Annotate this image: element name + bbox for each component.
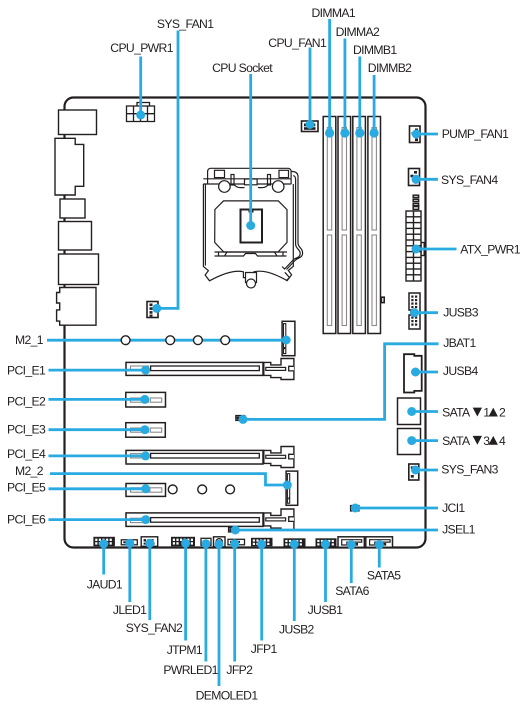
svg-text:SYS_FAN2: SYS_FAN2 bbox=[126, 621, 183, 635]
svg-text:PCI_E1: PCI_E1 bbox=[7, 364, 46, 378]
svg-text:SATA6: SATA6 bbox=[335, 584, 369, 598]
svg-text:1: 1 bbox=[483, 406, 490, 420]
svg-text:JUSB3: JUSB3 bbox=[443, 305, 479, 319]
svg-text:JAUD1: JAUD1 bbox=[87, 577, 123, 591]
svg-text:DIMMA2: DIMMA2 bbox=[336, 25, 380, 39]
svg-text:JUSB2: JUSB2 bbox=[279, 622, 315, 636]
svg-text:JFP2: JFP2 bbox=[226, 663, 253, 677]
svg-text:2: 2 bbox=[499, 406, 506, 420]
svg-text:DEMOLED1: DEMOLED1 bbox=[196, 689, 259, 703]
svg-text:SATA: SATA bbox=[442, 406, 471, 420]
svg-text:PCI_E3: PCI_E3 bbox=[7, 423, 46, 437]
svg-text:JSEL1: JSEL1 bbox=[442, 522, 476, 536]
svg-text:JCI1: JCI1 bbox=[442, 501, 465, 515]
svg-text:SATA: SATA bbox=[442, 434, 471, 448]
svg-text:PUMP_FAN1: PUMP_FAN1 bbox=[442, 127, 509, 141]
svg-text:4: 4 bbox=[499, 434, 506, 448]
svg-text:CPU_PWR1: CPU_PWR1 bbox=[110, 41, 173, 55]
svg-text:M2_2: M2_2 bbox=[15, 464, 44, 478]
svg-text:JLED1: JLED1 bbox=[113, 603, 147, 617]
svg-text:3: 3 bbox=[483, 434, 490, 448]
svg-text:CPU_FAN1: CPU_FAN1 bbox=[268, 36, 327, 50]
svg-text:SYS_FAN1: SYS_FAN1 bbox=[157, 17, 214, 31]
svg-text:PCI_E4: PCI_E4 bbox=[7, 447, 46, 461]
svg-text:PCI_E6: PCI_E6 bbox=[7, 513, 46, 527]
svg-text:PCI_E5: PCI_E5 bbox=[7, 481, 46, 495]
svg-text:ATX_PWR1: ATX_PWR1 bbox=[460, 242, 520, 256]
svg-text:CPU Socket: CPU Socket bbox=[212, 61, 273, 75]
svg-text:DIMMA1: DIMMA1 bbox=[312, 6, 356, 20]
svg-text:M2_1: M2_1 bbox=[15, 333, 44, 347]
svg-text:JTPM1: JTPM1 bbox=[167, 643, 203, 657]
svg-text:PCI_E2: PCI_E2 bbox=[7, 395, 46, 409]
svg-text:JBAT1: JBAT1 bbox=[443, 336, 476, 350]
svg-text:JUSB1: JUSB1 bbox=[308, 603, 344, 617]
svg-text:PWRLED1: PWRLED1 bbox=[163, 663, 218, 677]
svg-text:DIMMB2: DIMMB2 bbox=[368, 61, 412, 75]
svg-text:DIMMB1: DIMMB1 bbox=[353, 43, 397, 57]
svg-text:JUSB4: JUSB4 bbox=[443, 364, 479, 378]
svg-text:JFP1: JFP1 bbox=[251, 642, 278, 656]
svg-text:SYS_FAN3: SYS_FAN3 bbox=[441, 463, 498, 477]
svg-text:SATA5: SATA5 bbox=[367, 568, 401, 582]
svg-text:SYS_FAN4: SYS_FAN4 bbox=[441, 173, 498, 187]
